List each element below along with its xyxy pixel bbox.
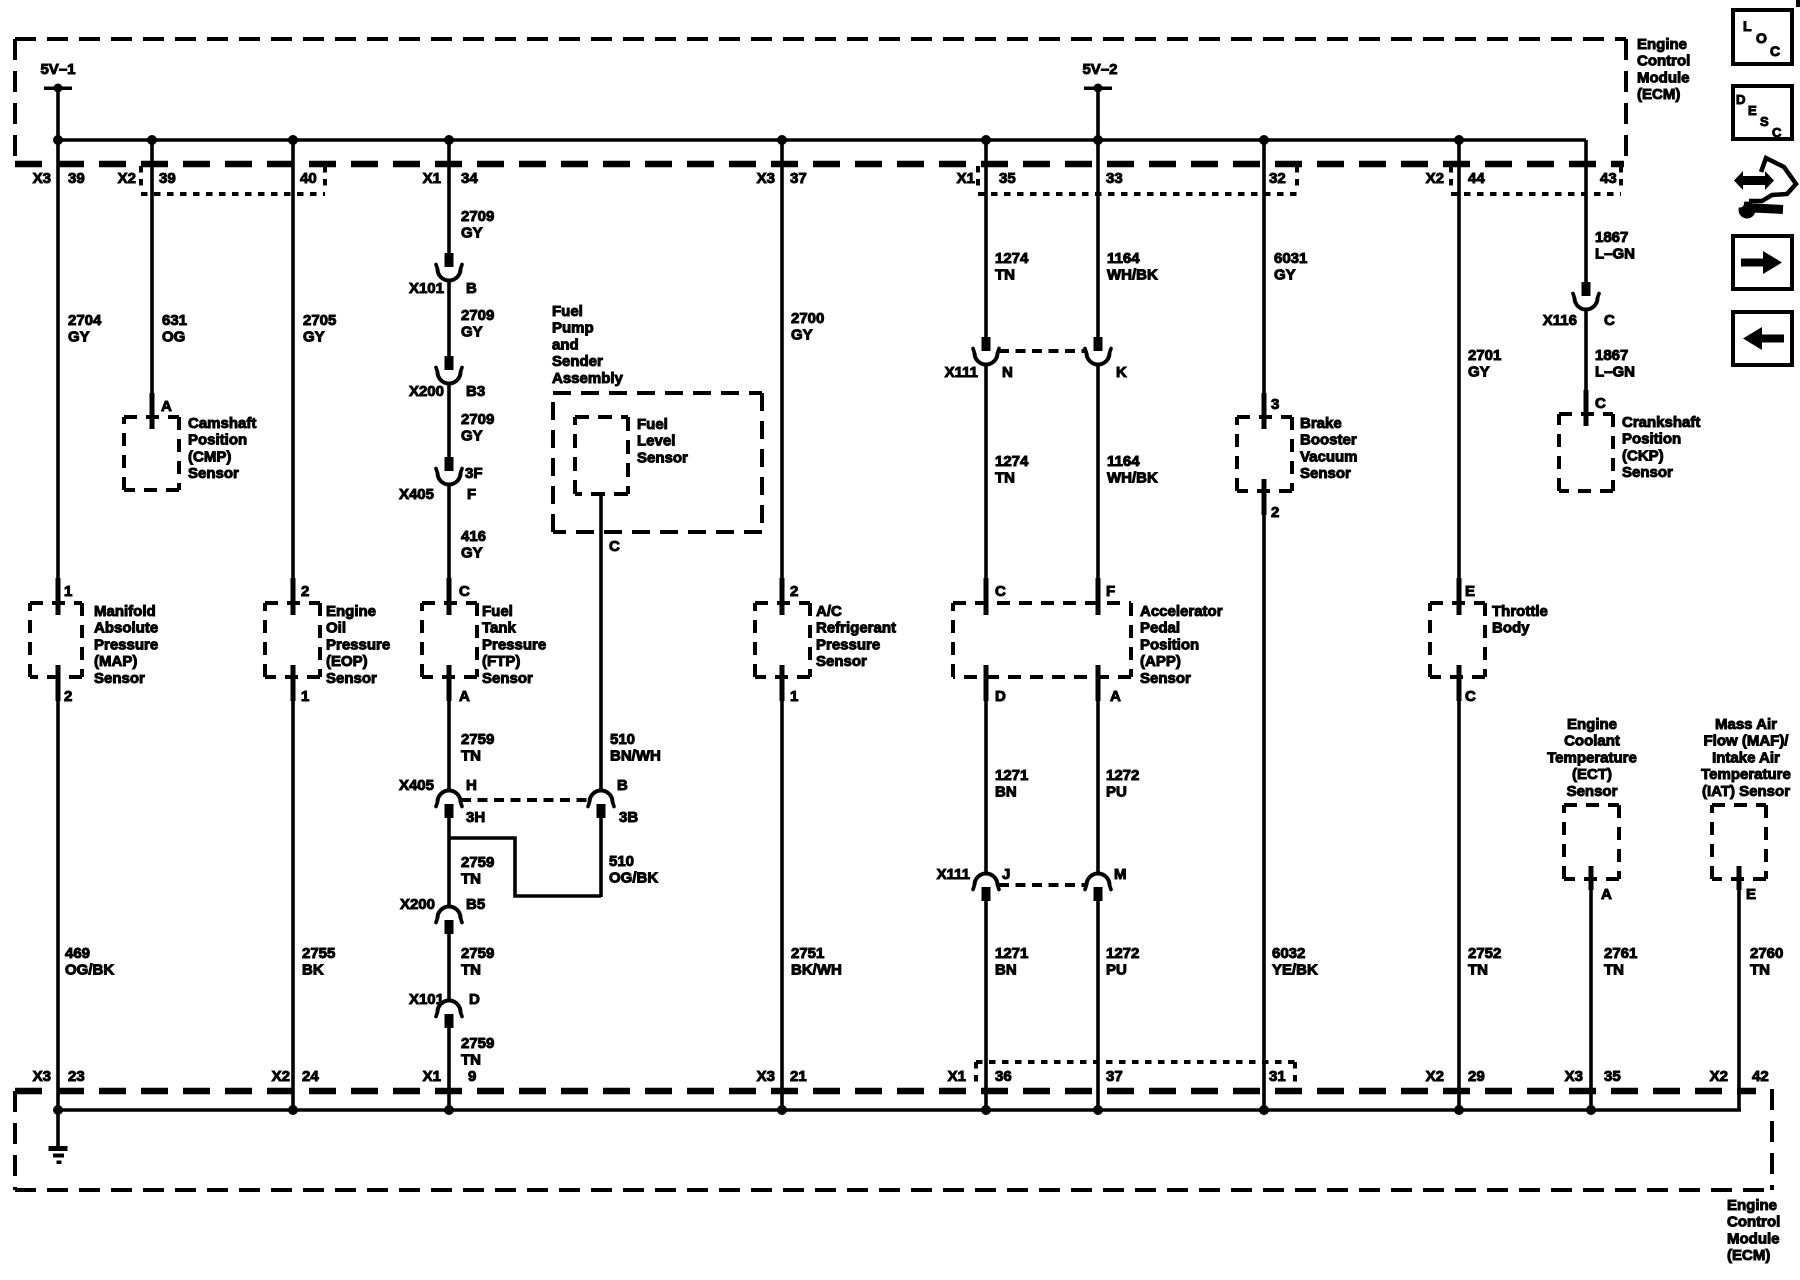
svg-text:Sensor: Sensor [637, 449, 688, 466]
svg-text:X2: X2 [118, 170, 136, 187]
svg-text:2: 2 [790, 583, 798, 600]
svg-text:L: L [1743, 18, 1752, 34]
svg-text:E: E [1465, 583, 1475, 600]
svg-text:TN: TN [461, 871, 481, 888]
svg-text:O: O [1756, 30, 1767, 46]
svg-text:35: 35 [1604, 1068, 1621, 1085]
svg-text:X1: X1 [423, 1068, 441, 1085]
svg-text:WH/BK: WH/BK [1107, 470, 1158, 487]
svg-text:BN: BN [995, 962, 1017, 979]
svg-text:GY: GY [68, 329, 90, 346]
svg-text:Pump: Pump [552, 320, 594, 337]
svg-text:Position: Position [1622, 431, 1681, 448]
svg-text:X2: X2 [1426, 170, 1444, 187]
svg-text:B5: B5 [466, 896, 485, 913]
svg-text:1271: 1271 [995, 945, 1028, 962]
svg-text:(CKP): (CKP) [1622, 447, 1664, 464]
svg-text:PU: PU [1106, 962, 1127, 979]
svg-text:M: M [1114, 866, 1127, 883]
svg-text:3H: 3H [466, 809, 485, 826]
svg-text:X111: X111 [945, 364, 978, 381]
svg-text:X111: X111 [937, 866, 970, 883]
svg-text:GY: GY [1274, 267, 1296, 284]
svg-text:B: B [466, 280, 477, 297]
svg-text:X200: X200 [409, 383, 444, 400]
svg-text:Oil: Oil [326, 620, 346, 637]
svg-text:2760: 2760 [1750, 945, 1783, 962]
svg-text:2751: 2751 [791, 945, 824, 962]
svg-text:21: 21 [790, 1068, 807, 1085]
svg-text:2701: 2701 [1468, 347, 1501, 364]
svg-text:1274: 1274 [995, 250, 1029, 267]
svg-text:C: C [995, 583, 1006, 600]
svg-text:2709: 2709 [461, 208, 494, 225]
svg-text:2759: 2759 [461, 1035, 494, 1052]
svg-text:Engine: Engine [1567, 716, 1617, 733]
svg-text:2705: 2705 [303, 312, 336, 329]
svg-text:(CMP): (CMP) [188, 448, 231, 465]
svg-text:2709: 2709 [461, 307, 494, 324]
svg-text:1271: 1271 [995, 767, 1028, 784]
svg-text:and: and [552, 336, 579, 353]
svg-text:Assembly: Assembly [552, 370, 624, 387]
svg-text:BN/WH: BN/WH [610, 748, 661, 765]
svg-text:43: 43 [1600, 170, 1617, 187]
svg-text:3: 3 [1271, 396, 1279, 413]
svg-text:Body: Body [1492, 620, 1530, 637]
svg-text:(APP): (APP) [1140, 653, 1181, 670]
svg-text:5V–1: 5V–1 [40, 61, 75, 78]
svg-text:Sensor: Sensor [816, 653, 867, 670]
svg-text:GY: GY [791, 327, 813, 344]
svg-text:C: C [459, 583, 470, 600]
svg-text:Tank: Tank [482, 620, 517, 637]
svg-text:36: 36 [995, 1068, 1012, 1085]
svg-text:Throttle: Throttle [1492, 603, 1548, 620]
svg-text:(ECT): (ECT) [1572, 766, 1612, 783]
svg-text:TN: TN [995, 470, 1015, 487]
svg-text:9: 9 [468, 1068, 476, 1085]
svg-text:Sensor: Sensor [94, 670, 145, 687]
svg-text:A/C: A/C [816, 603, 842, 620]
svg-text:1274: 1274 [995, 453, 1029, 470]
svg-text:40: 40 [300, 170, 317, 187]
svg-text:X3: X3 [757, 170, 775, 187]
svg-text:34: 34 [461, 170, 478, 187]
svg-text:OG/BK: OG/BK [609, 870, 658, 887]
svg-text:2761: 2761 [1604, 945, 1637, 962]
svg-text:X2: X2 [272, 1068, 290, 1085]
svg-text:Brake: Brake [1300, 415, 1342, 432]
svg-text:X101: X101 [409, 991, 444, 1008]
svg-text:BK: BK [302, 962, 324, 979]
svg-text:510: 510 [610, 731, 635, 748]
svg-text:GY: GY [461, 428, 483, 445]
svg-text:Module: Module [1727, 1230, 1780, 1247]
svg-text:Sensor: Sensor [1140, 670, 1191, 687]
svg-text:B3: B3 [466, 383, 485, 400]
svg-text:X1: X1 [957, 170, 975, 187]
svg-text:C: C [1772, 125, 1782, 140]
svg-text:Position: Position [1140, 636, 1199, 653]
svg-text:37: 37 [1106, 1068, 1123, 1085]
svg-text:Sensor: Sensor [1300, 465, 1351, 482]
svg-text:A: A [459, 688, 470, 705]
svg-text:1867: 1867 [1595, 347, 1628, 364]
svg-text:X3: X3 [33, 170, 51, 187]
svg-text:Sensor: Sensor [326, 670, 377, 687]
svg-text:X1: X1 [423, 170, 441, 187]
svg-text:(MAP): (MAP) [94, 653, 137, 670]
svg-text:TN: TN [995, 267, 1015, 284]
svg-text:Control: Control [1637, 53, 1690, 70]
svg-text:Pressure: Pressure [482, 636, 546, 653]
svg-text:Temperature: Temperature [1701, 766, 1791, 783]
svg-text:C: C [1770, 43, 1780, 59]
svg-text:GY: GY [461, 225, 483, 242]
svg-text:32: 32 [1269, 170, 1286, 187]
svg-text:Mass Air: Mass Air [1715, 716, 1777, 733]
svg-text:Accelerator: Accelerator [1140, 603, 1223, 620]
svg-text:631: 631 [162, 312, 187, 329]
svg-text:1: 1 [64, 583, 72, 600]
svg-text:1867: 1867 [1595, 229, 1628, 246]
svg-text:Refrigerant: Refrigerant [816, 620, 896, 637]
svg-text:29: 29 [1468, 1068, 1485, 1085]
svg-text:C: C [609, 538, 620, 555]
svg-text:2759: 2759 [461, 854, 494, 871]
svg-text:Intake Air: Intake Air [1712, 749, 1780, 766]
svg-text:X2: X2 [1426, 1068, 1444, 1085]
svg-text:2759: 2759 [461, 731, 494, 748]
svg-text:F: F [467, 486, 476, 503]
svg-text:Engine: Engine [1637, 36, 1687, 53]
svg-text:44: 44 [1468, 170, 1485, 187]
svg-text:Engine: Engine [1727, 1197, 1777, 1214]
svg-text:OG: OG [162, 329, 185, 346]
svg-text:BN: BN [995, 784, 1017, 801]
svg-text:Fuel: Fuel [552, 303, 583, 320]
svg-text:D: D [995, 688, 1006, 705]
svg-text:X116: X116 [1543, 312, 1577, 329]
svg-text:Level: Level [637, 433, 675, 450]
svg-text:39: 39 [68, 170, 85, 187]
svg-text:TN: TN [461, 962, 481, 979]
svg-text:X101: X101 [409, 280, 444, 297]
svg-text:510: 510 [609, 853, 634, 870]
svg-text:D: D [469, 991, 480, 1008]
svg-text:3B: 3B [619, 809, 638, 826]
svg-text:J: J [1002, 866, 1010, 883]
svg-text:23: 23 [68, 1068, 85, 1085]
svg-text:1: 1 [301, 688, 309, 705]
svg-text:C: C [1465, 688, 1476, 705]
svg-text:B: B [617, 777, 628, 794]
svg-text:2: 2 [1271, 504, 1279, 521]
svg-text:X2: X2 [1710, 1068, 1728, 1085]
svg-text:1164: 1164 [1107, 250, 1140, 267]
svg-text:E: E [1748, 103, 1757, 118]
svg-text:469: 469 [65, 945, 90, 962]
svg-text:Camshaft: Camshaft [188, 415, 256, 432]
svg-text:(IAT) Sensor: (IAT) Sensor [1702, 783, 1790, 800]
svg-text:X1: X1 [948, 1068, 966, 1085]
svg-text:TN: TN [461, 1052, 481, 1069]
svg-text:(EOP): (EOP) [326, 653, 368, 670]
svg-text:(ECM): (ECM) [1637, 86, 1680, 103]
svg-text:Control: Control [1727, 1214, 1780, 1231]
svg-text:X405: X405 [399, 777, 434, 794]
svg-text:33: 33 [1106, 170, 1123, 187]
svg-text:31: 31 [1269, 1068, 1286, 1085]
svg-text:L–GN: L–GN [1595, 364, 1635, 381]
svg-text:Fuel: Fuel [637, 416, 668, 433]
svg-text:X3: X3 [1565, 1068, 1583, 1085]
svg-text:OG/BK: OG/BK [65, 962, 114, 979]
svg-text:Position: Position [188, 432, 247, 449]
svg-text:YE/BK: YE/BK [1272, 962, 1318, 979]
svg-text:42: 42 [1752, 1068, 1769, 1085]
svg-text:X3: X3 [33, 1068, 51, 1085]
svg-text:Sensor: Sensor [1567, 783, 1618, 800]
svg-text:E: E [1746, 886, 1756, 903]
svg-text:2752: 2752 [1468, 945, 1501, 962]
svg-text:2709: 2709 [461, 411, 494, 428]
svg-text:Vacuum: Vacuum [1300, 448, 1358, 465]
svg-text:BK/WH: BK/WH [791, 962, 842, 979]
svg-text:(FTP): (FTP) [482, 653, 520, 670]
svg-text:2755: 2755 [302, 945, 335, 962]
svg-text:L–GN: L–GN [1595, 246, 1635, 263]
svg-text:Sender: Sender [552, 353, 603, 370]
svg-text:2759: 2759 [461, 945, 494, 962]
svg-text:Booster: Booster [1300, 432, 1357, 449]
svg-text:X3: X3 [757, 1068, 775, 1085]
svg-text:416: 416 [461, 528, 486, 545]
svg-text:PU: PU [1106, 784, 1127, 801]
svg-text:K: K [1116, 364, 1127, 381]
svg-text:24: 24 [302, 1068, 319, 1085]
svg-text:TN: TN [1468, 962, 1488, 979]
svg-text:H: H [466, 777, 477, 794]
svg-text:GY: GY [461, 324, 483, 341]
svg-text:Absolute: Absolute [94, 620, 158, 637]
svg-text:Flow (MAF)/: Flow (MAF)/ [1704, 733, 1790, 750]
svg-text:A: A [1601, 886, 1612, 903]
svg-text:C: C [1604, 312, 1615, 329]
svg-text:Pressure: Pressure [816, 636, 880, 653]
svg-text:TN: TN [1750, 962, 1770, 979]
svg-text:Manifold: Manifold [94, 603, 156, 620]
svg-text:A: A [1110, 688, 1121, 705]
svg-text:1272: 1272 [1106, 767, 1139, 784]
svg-text:Pressure: Pressure [326, 636, 390, 653]
svg-text:Pedal: Pedal [1140, 620, 1180, 637]
svg-text:TN: TN [1604, 962, 1624, 979]
svg-text:1164: 1164 [1107, 453, 1140, 470]
svg-text:Coolant: Coolant [1564, 733, 1620, 750]
svg-text:TN: TN [461, 748, 481, 765]
svg-text:2: 2 [301, 583, 309, 600]
svg-text:39: 39 [159, 170, 176, 187]
svg-text:2704: 2704 [68, 312, 102, 329]
svg-text:Temperature: Temperature [1547, 749, 1637, 766]
svg-text:N: N [1002, 364, 1013, 381]
svg-text:Sensor: Sensor [188, 465, 239, 482]
svg-text:C: C [1595, 395, 1606, 412]
svg-text:S: S [1760, 114, 1769, 129]
svg-text:Module: Module [1637, 69, 1690, 86]
svg-text:GY: GY [1468, 364, 1490, 381]
svg-text:(ECM): (ECM) [1727, 1247, 1770, 1264]
svg-text:3F: 3F [465, 465, 483, 482]
svg-text:WH/BK: WH/BK [1107, 267, 1158, 284]
svg-text:D: D [1736, 92, 1745, 107]
svg-text:Sensor: Sensor [482, 670, 533, 687]
svg-text:X200: X200 [400, 896, 435, 913]
svg-text:GY: GY [303, 329, 325, 346]
svg-text:X405: X405 [399, 486, 434, 503]
svg-text:Pressure: Pressure [94, 636, 158, 653]
svg-text:6031: 6031 [1274, 250, 1307, 267]
svg-text:F: F [1106, 583, 1115, 600]
svg-text:35: 35 [999, 170, 1016, 187]
svg-text:GY: GY [461, 545, 483, 562]
svg-text:Fuel: Fuel [482, 603, 513, 620]
svg-text:A: A [161, 398, 172, 415]
svg-text:6032: 6032 [1272, 945, 1305, 962]
svg-text:2700: 2700 [791, 310, 824, 327]
svg-text:1: 1 [790, 688, 798, 705]
svg-text:5V–2: 5V–2 [1082, 61, 1117, 78]
svg-text:1272: 1272 [1106, 945, 1139, 962]
svg-text:Crankshaft: Crankshaft [1622, 414, 1700, 431]
svg-text:2: 2 [64, 688, 72, 705]
svg-text:Engine: Engine [326, 603, 376, 620]
svg-text:37: 37 [790, 170, 807, 187]
svg-text:Sensor: Sensor [1622, 464, 1673, 481]
